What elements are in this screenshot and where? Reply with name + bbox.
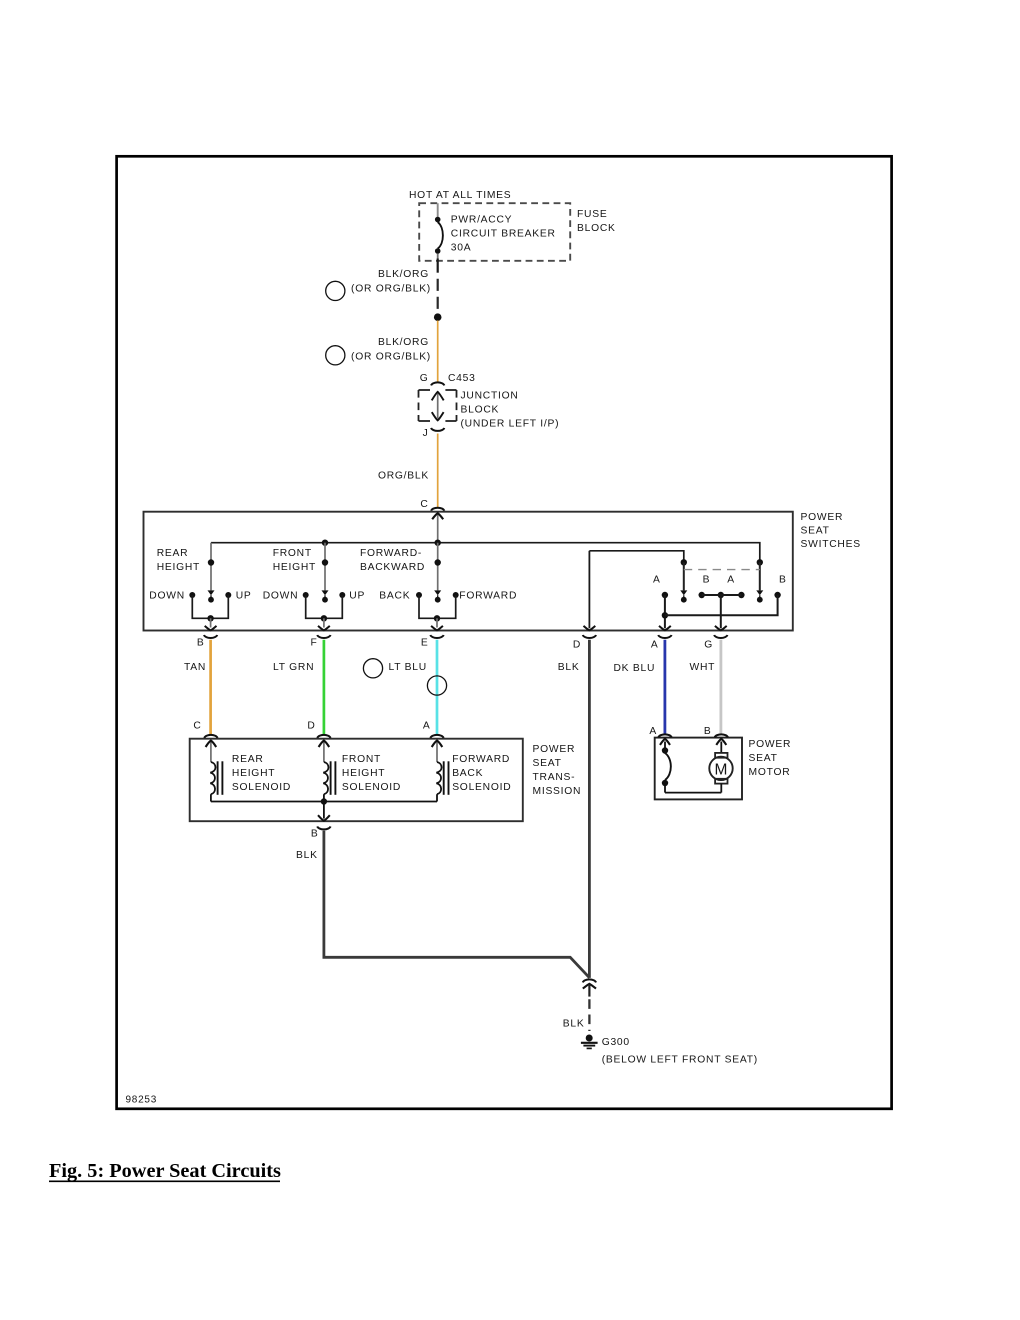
crossbar B-A — [702, 594, 742, 596]
svg-text:SOLENOID: SOLENOID — [232, 782, 291, 793]
wire from crossbar center to pin G — [720, 595, 722, 628]
svg-text:D: D — [307, 721, 315, 732]
bus rail 1 — [211, 543, 760, 563]
switch pin F — [317, 635, 330, 638]
svg-text:G: G — [704, 639, 713, 650]
motor M1 — [720, 742, 722, 753]
crossbar to contact B right — [665, 595, 778, 615]
svg-text:98253: 98253 — [126, 1095, 158, 1106]
svg-text:POWER: POWER — [749, 739, 792, 750]
svg-text:HEIGHT: HEIGHT — [232, 768, 275, 779]
wire to pin B — [323, 802, 325, 819]
svg-text:HOT AT ALL TIMES: HOT AT ALL TIMES — [409, 190, 511, 201]
svg-text:FRONT: FRONT — [273, 548, 312, 559]
svg-text:FORWARD-: FORWARD- — [360, 548, 422, 559]
svg-text:B: B — [704, 726, 712, 737]
svg-text:CIRCUIT BREAKER: CIRCUIT BREAKER — [451, 229, 556, 240]
svg-text:FUSE: FUSE — [577, 209, 607, 220]
wire DK BLU — [664, 640, 667, 734]
svg-text:LT GRN: LT GRN — [273, 662, 314, 673]
wire TAN — [209, 640, 212, 735]
svg-text:C453: C453 — [448, 373, 476, 384]
wire feed into breaker — [437, 203, 439, 219]
node on rail at front-height stem — [322, 540, 328, 546]
svg-text:F: F — [310, 638, 317, 649]
svg-text:SEAT: SEAT — [801, 526, 830, 537]
svg-text:BLOCK: BLOCK — [461, 405, 500, 416]
callout circle 1 — [326, 281, 345, 300]
svg-text:MISSION: MISSION — [533, 786, 582, 797]
svg-text:SEAT: SEAT — [533, 758, 562, 769]
svg-text:B: B — [197, 638, 205, 649]
motor switch wiper 1 — [681, 559, 687, 565]
switch pin G — [714, 635, 727, 638]
circuit breaker CB1 30A — [435, 217, 441, 223]
solenoid REAR HEIGHT SOLENOID — [210, 741, 212, 762]
svg-text:ORG/BLK: ORG/BLK — [378, 471, 429, 482]
svg-text:PWR/ACCY: PWR/ACCY — [451, 215, 513, 226]
wire BLK from pin D — [588, 640, 591, 978]
svg-text:BLK: BLK — [558, 662, 580, 673]
svg-text:BLK: BLK — [296, 850, 318, 861]
switch pin D — [583, 635, 596, 638]
svg-text:SOLENOID: SOLENOID — [452, 782, 511, 793]
svg-text:A: A — [727, 575, 735, 586]
wire LT BLU — [436, 640, 439, 735]
svg-text:(UNDER LEFT I/P): (UNDER LEFT I/P) — [461, 419, 560, 430]
diagram border frame — [117, 156, 892, 1109]
svg-text:BLK/ORG: BLK/ORG — [378, 269, 429, 280]
svg-text:WHT: WHT — [690, 662, 716, 673]
svg-text:UP: UP — [349, 591, 365, 602]
junction block internal wire with arrows — [437, 393, 439, 419]
svg-text:DOWN: DOWN — [263, 591, 299, 602]
svg-text:REAR: REAR — [157, 548, 189, 559]
svg-text:C: C — [420, 499, 428, 510]
power seat motor box — [655, 738, 742, 800]
wire WHT — [720, 640, 723, 734]
junction block dashed box — [418, 390, 420, 421]
svg-text:B: B — [311, 829, 319, 840]
svg-text:POWER: POWER — [801, 512, 844, 523]
svg-text:DK BLU: DK BLU — [614, 663, 656, 674]
svg-text:REAR: REAR — [232, 754, 264, 765]
motor bottom rail — [665, 792, 721, 794]
svg-text:TAN: TAN — [184, 662, 206, 673]
wire ORG/BLK to switch box — [437, 434, 439, 508]
svg-text:D: D — [573, 639, 581, 650]
svg-text:G: G — [420, 373, 429, 384]
svg-text:FORWARD: FORWARD — [459, 591, 517, 602]
svg-text:(OR ORG/BLK): (OR ORG/BLK) — [351, 284, 431, 295]
svg-text:HEIGHT: HEIGHT — [342, 768, 385, 779]
solenoid FORWARD BACK SOLENOID — [436, 741, 438, 762]
inline connector above ground — [583, 979, 596, 982]
wire BLK from pin B — [324, 831, 590, 978]
node on rail at fwd-bwd stem — [435, 540, 441, 546]
svg-text:BLK: BLK — [563, 1019, 585, 1030]
svg-text:BLK/ORG: BLK/ORG — [378, 337, 429, 348]
wire BLK/ORG solid to C453 — [437, 321, 439, 382]
transmission pin B — [317, 826, 330, 829]
callout circle 4 (on LT BLU wire) — [427, 676, 446, 695]
svg-text:E: E — [421, 638, 429, 649]
solenoid FRONT HEIGHT SOLENOID — [323, 741, 325, 762]
splice node S1 — [434, 313, 442, 321]
svg-text:SWITCHES: SWITCHES — [801, 539, 861, 550]
svg-text:G300: G300 — [602, 1037, 630, 1048]
svg-text:FRONT: FRONT — [342, 754, 381, 765]
svg-text:A: A — [653, 575, 661, 586]
svg-text:30A: 30A — [451, 243, 472, 254]
motor breaker branch — [664, 742, 666, 751]
wire from contact A to pin A — [664, 595, 666, 628]
svg-text:JUNCTION: JUNCTION — [461, 391, 519, 402]
power seat transmission box — [190, 739, 523, 822]
switch pin A — [658, 635, 671, 638]
wire BLK/ORG dashed from fuse block — [437, 254, 439, 259]
svg-text:A: A — [649, 726, 657, 737]
motor switch wiper 2 — [757, 559, 763, 565]
entry arrow at pin C — [437, 513, 439, 542]
svg-text:(BELOW LEFT FRONT SEAT): (BELOW LEFT FRONT SEAT) — [602, 1055, 758, 1066]
switch pin E — [430, 635, 443, 638]
svg-text:J: J — [423, 428, 429, 439]
solenoid common rail — [211, 801, 437, 803]
svg-text:M: M — [714, 761, 728, 778]
callout circle 2 — [326, 346, 345, 365]
svg-text:B: B — [703, 575, 711, 586]
svg-text:HEIGHT: HEIGHT — [273, 562, 316, 573]
wire LT GRN — [323, 640, 326, 735]
svg-text:A: A — [423, 721, 431, 732]
svg-text:BACKWARD: BACKWARD — [360, 562, 425, 573]
svg-text:BACK: BACK — [452, 768, 483, 779]
callout circle 3 (beside LT BLU) — [363, 659, 382, 678]
svg-text:TRANS-: TRANS- — [533, 772, 576, 783]
power seat switches box — [144, 512, 793, 631]
wire D stem — [588, 551, 590, 629]
svg-text:UP: UP — [236, 591, 252, 602]
svg-text:SEAT: SEAT — [749, 753, 778, 764]
svg-text:B: B — [779, 575, 787, 586]
fuse block dashed box — [419, 203, 570, 261]
svg-text:HEIGHT: HEIGHT — [157, 562, 200, 573]
svg-text:BACK: BACK — [379, 591, 410, 602]
svg-text:(OR ORG/BLK): (OR ORG/BLK) — [351, 352, 431, 363]
ground G300 — [586, 1035, 593, 1042]
svg-text:A: A — [651, 639, 659, 650]
svg-text:C: C — [193, 721, 201, 732]
switch pin B — [204, 635, 217, 638]
svg-text:Fig. 5: Power Seat Circuits: Fig. 5: Power Seat Circuits — [49, 1160, 281, 1182]
svg-text:SOLENOID: SOLENOID — [342, 782, 401, 793]
bus rail 2 — [589, 551, 683, 563]
svg-text:MOTOR: MOTOR — [749, 767, 791, 778]
wire BLK dashed to ground — [588, 999, 590, 1031]
svg-text:POWER: POWER — [533, 744, 576, 755]
svg-text:DOWN: DOWN — [149, 591, 185, 602]
contact dots — [662, 592, 668, 598]
svg-text:BLOCK: BLOCK — [577, 223, 616, 234]
svg-text:LT BLU: LT BLU — [389, 662, 427, 673]
wiper link dashed — [684, 569, 760, 571]
svg-text:FORWARD: FORWARD — [452, 754, 510, 765]
